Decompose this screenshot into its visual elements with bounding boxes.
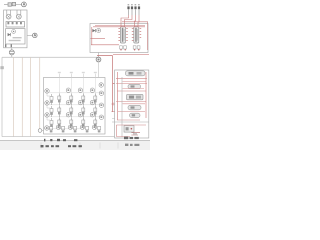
status text left xyxy=(41,145,82,147)
wire vertical 5 xyxy=(39,57,41,128)
resistor R1 xyxy=(126,71,146,76)
label S13 xyxy=(66,113,70,117)
label S19 xyxy=(68,125,72,129)
wire left vertical xyxy=(1,57,3,136)
wire red xyxy=(123,103,146,105)
diode D1 xyxy=(8,33,11,36)
wire vertical 4 xyxy=(30,57,32,136)
button S16 xyxy=(94,118,97,130)
status bar xyxy=(0,141,150,150)
label S18 xyxy=(56,125,60,129)
indicator circle xyxy=(12,30,16,34)
label S22 xyxy=(45,113,49,117)
button S14 xyxy=(70,118,73,130)
connector legs xyxy=(129,9,140,15)
label S14 xyxy=(78,113,82,117)
wire red mid xyxy=(91,38,106,40)
wire bottom bus xyxy=(2,136,114,138)
wire red bottom xyxy=(116,125,146,137)
wire stub xyxy=(112,118,115,120)
button S20 xyxy=(50,94,53,105)
label S6 xyxy=(78,88,82,92)
label S5 xyxy=(66,88,70,92)
button S7 xyxy=(82,94,85,106)
wire bend xyxy=(115,125,117,137)
driver module box xyxy=(90,24,148,53)
label S4 xyxy=(99,83,103,87)
fuse F1 xyxy=(8,2,16,6)
transistor array U3 xyxy=(132,27,141,43)
wire red rail inner xyxy=(91,27,93,45)
pin stub 4 xyxy=(94,72,97,78)
wire red xyxy=(123,80,147,82)
button S24 xyxy=(86,126,89,132)
button S19 xyxy=(74,126,77,132)
diode D2 xyxy=(92,29,95,32)
lamp L1 xyxy=(6,10,11,19)
wire vertical 3 xyxy=(21,57,23,136)
resistor R4 xyxy=(130,113,141,117)
crystal Y1 xyxy=(124,126,134,133)
label S20 xyxy=(45,89,49,93)
node label B xyxy=(27,33,37,38)
keypad module box xyxy=(44,78,106,135)
keypad link wires xyxy=(47,93,50,120)
button S8 xyxy=(94,94,97,106)
wire red xyxy=(116,78,147,80)
node label A xyxy=(22,2,27,7)
button S21 xyxy=(50,106,53,117)
label S15 xyxy=(90,113,94,117)
wire red xyxy=(116,101,146,103)
button S9 xyxy=(58,106,61,118)
label S12 xyxy=(99,103,103,107)
button S10 xyxy=(70,106,73,118)
lamp L2 xyxy=(16,10,21,19)
capacitor pair C2 xyxy=(133,46,140,51)
button S11 xyxy=(82,106,85,118)
label S16 xyxy=(99,115,103,119)
button S18 xyxy=(62,126,65,132)
status marks upper xyxy=(44,139,77,142)
text label xyxy=(13,37,22,38)
resistor R3 xyxy=(128,105,141,109)
label S25 xyxy=(92,125,96,129)
status text right xyxy=(125,144,139,146)
capacitor C3 xyxy=(131,133,140,135)
label S11 xyxy=(90,100,94,104)
wire red lower rail xyxy=(113,54,149,56)
junction xyxy=(111,102,114,105)
button S13 xyxy=(58,118,61,130)
label S8 xyxy=(99,91,103,95)
resistor R2 xyxy=(128,84,141,88)
label S10 xyxy=(78,100,82,104)
pin stub 1 xyxy=(58,72,61,78)
controller sub-board xyxy=(5,29,25,48)
button S25 xyxy=(98,126,101,132)
pin xyxy=(5,44,6,47)
button S15 xyxy=(82,118,85,130)
wire red xyxy=(117,90,146,92)
pin stub 2 xyxy=(70,72,73,78)
keypad row wires xyxy=(45,93,104,129)
wire red link xyxy=(97,56,115,112)
wire red rail right xyxy=(145,72,147,118)
terminal block TB1 xyxy=(6,22,25,27)
button S6 xyxy=(70,94,73,106)
wire red xyxy=(118,111,145,113)
label S21 xyxy=(45,101,49,105)
node junction xyxy=(38,129,43,133)
wire red rail left xyxy=(117,72,119,120)
wire red connector drops xyxy=(93,15,148,50)
wire red top xyxy=(95,25,145,27)
wire xyxy=(4,3,21,5)
connector J1 xyxy=(127,4,140,9)
wire red xyxy=(116,83,147,85)
node label D xyxy=(96,53,101,78)
wire vertical 2 xyxy=(13,57,15,136)
pin stub 3 xyxy=(82,72,85,78)
button S5 xyxy=(58,94,61,106)
divider xyxy=(112,121,149,123)
wire red xyxy=(117,119,140,121)
module U1 box xyxy=(4,10,27,48)
wire red xyxy=(123,88,145,90)
display module box xyxy=(115,70,149,138)
keypad buttons grid xyxy=(45,83,104,133)
button S22 xyxy=(50,118,53,127)
label S7 xyxy=(90,88,94,92)
transistor array U2 xyxy=(118,27,127,43)
net tag xyxy=(0,66,3,69)
IC U4 xyxy=(127,94,144,99)
wire bus horizontal xyxy=(2,56,98,58)
capacitor pair C1 xyxy=(120,46,127,51)
wire red lower xyxy=(91,44,119,46)
junction xyxy=(111,111,114,113)
buzzer BZ1 xyxy=(9,48,14,58)
label S9 xyxy=(66,100,70,104)
button S17 xyxy=(50,126,53,132)
wire pin column xyxy=(121,77,123,137)
part label text xyxy=(124,137,139,140)
node label C xyxy=(97,28,101,32)
button S12 xyxy=(94,106,97,118)
label S17 xyxy=(45,126,49,130)
label S24 xyxy=(80,125,84,129)
keypad column wires xyxy=(59,78,95,130)
pin xyxy=(11,44,12,47)
